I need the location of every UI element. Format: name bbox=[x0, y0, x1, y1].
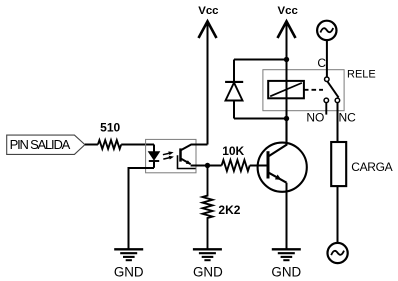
svg-text:RELE: RELE bbox=[347, 69, 376, 81]
svg-text:PIN SALIDA: PIN SALIDA bbox=[10, 137, 71, 152]
phototransistor base stub bbox=[178, 155, 196, 168]
Q1 emitter bbox=[268, 172, 287, 182]
ground GND3 bbox=[272, 248, 301, 250]
Q1 collector bbox=[268, 119, 287, 157]
wire diode bottom to J3 bbox=[234, 118, 287, 120]
phototransistor emitter bbox=[181, 158, 191, 164]
Q1 base wire bbox=[251, 165, 269, 167]
transistor Q1 bbox=[258, 143, 307, 192]
svg-text:NO: NO bbox=[306, 111, 324, 125]
svg-text:C: C bbox=[317, 56, 326, 70]
node junction J2 bbox=[284, 57, 289, 62]
node junction J3 bbox=[284, 116, 289, 121]
node PIN SALIDA flag bbox=[7, 135, 85, 154]
Q1 base bar bbox=[267, 151, 270, 178]
svg-text:CARGA: CARGA bbox=[351, 160, 392, 174]
resistor 2K2 bbox=[203, 166, 213, 249]
wire LED cathode to GND1 bbox=[129, 168, 155, 249]
diode D1 bbox=[233, 60, 235, 83]
svg-text:GND: GND bbox=[114, 264, 144, 279]
wire Q1 emitter to GND3 bbox=[286, 183, 288, 249]
wire PIN SALIDA to R 510 bbox=[85, 144, 98, 146]
relay coil K1 bbox=[268, 81, 304, 98]
svg-text:NC: NC bbox=[339, 111, 357, 125]
wire V1 to C bbox=[326, 40, 328, 77]
wire R10K to transistor base bbox=[250, 165, 268, 167]
wire CARGA to V2 bbox=[337, 186, 339, 243]
wire Vcc left to optocoupler collector bbox=[207, 21, 209, 144]
phototransistor collector bbox=[181, 145, 208, 151]
wire top junction to diode bbox=[234, 59, 287, 61]
power Vcc right arrow bbox=[278, 21, 296, 38]
light arrow 2 bbox=[163, 158, 170, 160]
wire R510 to optocoupler bbox=[121, 144, 154, 146]
svg-text:GND: GND bbox=[193, 264, 223, 279]
wire coil vertical bbox=[286, 60, 288, 119]
resistor 510 bbox=[98, 140, 121, 149]
node junction J1 bbox=[205, 163, 210, 168]
phototransistor base bar bbox=[179, 148, 182, 161]
relay armature bbox=[327, 81, 338, 97]
AC source V1 top bbox=[317, 21, 336, 40]
wire J1 to R 10K bbox=[208, 165, 222, 167]
node contact NC bbox=[335, 98, 340, 103]
relay actuation dashed link bbox=[304, 89, 323, 91]
svg-text:Vcc: Vcc bbox=[278, 5, 298, 17]
svg-text:Vcc: Vcc bbox=[198, 5, 218, 17]
optocoupler U1 box bbox=[146, 139, 196, 172]
relay RELE outline box bbox=[263, 70, 344, 111]
light arrow 1 bbox=[163, 153, 170, 155]
ground GND2 bbox=[193, 248, 222, 250]
power Vcc left arrow bbox=[199, 21, 217, 38]
wire Vcc right down bbox=[286, 21, 288, 59]
resistor 10K bbox=[222, 160, 250, 171]
svg-text:10K: 10K bbox=[222, 144, 244, 158]
svg-text:510: 510 bbox=[100, 121, 120, 135]
AC source V2 bottom bbox=[328, 243, 348, 263]
svg-text:GND: GND bbox=[271, 264, 301, 279]
wire NC to CARGA bbox=[337, 103, 339, 142]
load CARGA bbox=[331, 142, 346, 186]
LED inside optocoupler bbox=[153, 145, 155, 152]
svg-text:2K2: 2K2 bbox=[218, 203, 240, 217]
node contact NO bbox=[324, 98, 329, 103]
ground GND1 bbox=[114, 248, 143, 250]
